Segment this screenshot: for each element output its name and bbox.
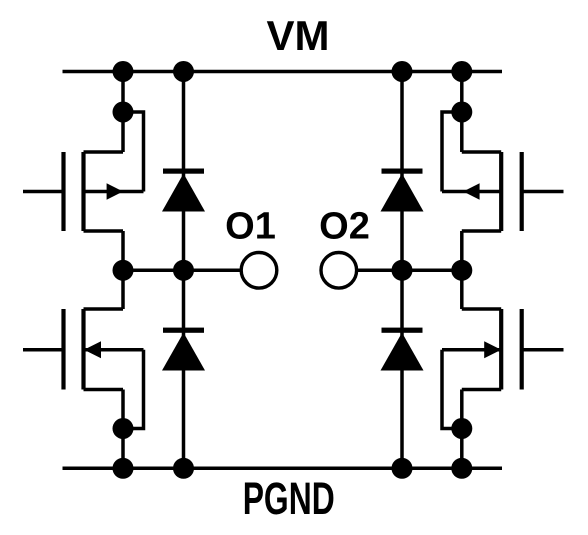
wire output node O1 to Q2 drain — [121, 270, 125, 309]
wire Q3 source to output node O2 — [460, 231, 464, 270]
svg-text:O2: O2 — [319, 206, 370, 248]
junction dot VM rail / D3 cathode — [392, 61, 413, 82]
transistor Q1 (left high-side PMOS) — [23, 152, 144, 231]
wire output O1 row — [123, 269, 242, 273]
junction dot PGND rail / Q2 source — [113, 458, 134, 479]
junction dot O2 row / D3-D4 — [392, 260, 413, 281]
wire Q4 source to PGND rail — [460, 390, 464, 469]
junction dot O1 row / Q1-Q2 — [113, 260, 134, 281]
node O1 terminal circle — [241, 252, 277, 288]
diode D2 (left low-side body diode) — [162, 328, 205, 371]
wire right diode column — [400, 72, 404, 469]
svg-text:PGND: PGND — [243, 473, 335, 524]
junction dot PGND rail / Q4 source — [451, 458, 472, 479]
wire VM rail — [63, 70, 503, 74]
junction dot VM rail / Q3 drain — [451, 61, 472, 82]
node O2 terminal circle — [321, 252, 357, 288]
diode D1 (left high-side body diode) — [162, 169, 205, 212]
wire Q4 body tie (body rail down to source dot) — [442, 350, 462, 429]
wire output O2 row — [356, 269, 461, 273]
wire Q1 source to output node O1 — [121, 231, 125, 270]
transistor Q3 (right high-side PMOS) — [442, 152, 564, 231]
junction dot O1 row / D1-D2 — [173, 260, 194, 281]
wire output node O2 to Q4 drain — [460, 270, 464, 309]
junction dot PGND rail / D4 anode — [392, 458, 413, 479]
wire left diode column — [182, 72, 186, 469]
transistor Q4 (right low-side NMOS) — [442, 309, 564, 390]
junction dot Q4 body tie — [451, 418, 472, 439]
wire left drain column (VM rail to Q1 drain lead) — [121, 72, 125, 153]
junction dot Q3 body tie — [451, 102, 472, 123]
wire right drain column (VM rail to Q3 drain lead) — [460, 72, 464, 153]
junction dot Q2 body tie — [113, 418, 134, 439]
svg-text:O1: O1 — [225, 206, 276, 248]
diode D3 (right high-side body diode) — [381, 169, 424, 212]
wire Q2 source to PGND rail — [121, 390, 125, 469]
junction dot O2 row / Q3-Q4 — [451, 260, 472, 281]
wire Q2 body tie (body rail down to source dot) — [123, 350, 144, 429]
junction dot VM rail / D1 cathode — [173, 61, 194, 82]
diode D4 (right low-side body diode) — [381, 328, 424, 371]
svg-text:VM: VM — [267, 12, 330, 59]
junction dot PGND rail / D2 anode — [173, 458, 194, 479]
junction dot Q1 body tie — [113, 102, 134, 123]
junction dot VM rail / Q1 drain — [113, 61, 134, 82]
wire Q1 body tie (dot to body rail) — [123, 112, 144, 192]
wire Q3 body tie (dot to body rail) — [442, 112, 462, 192]
wire PGND rail — [63, 467, 503, 471]
transistor Q2 (left low-side NMOS) — [23, 309, 144, 390]
